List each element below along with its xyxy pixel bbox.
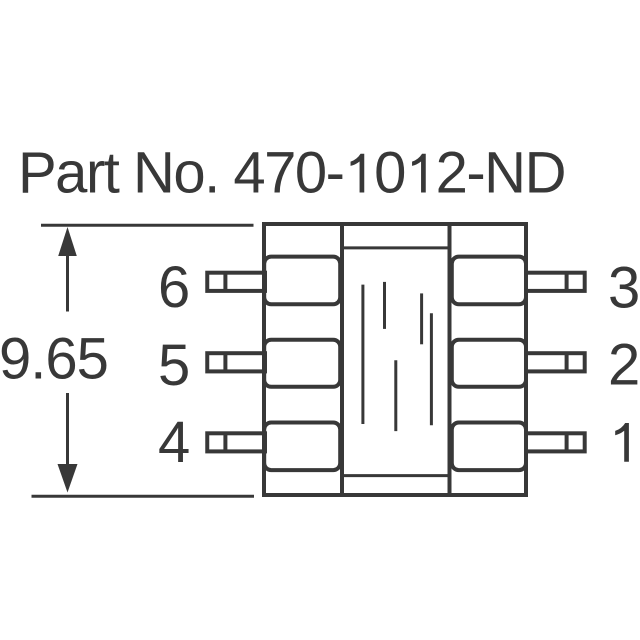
svg-text:Part No. 470-: Part No. 470- <box>18 141 343 206</box>
svg-text:6: 6 <box>158 255 190 320</box>
svg-text:3: 3 <box>608 256 640 321</box>
svg-text:5: 5 <box>158 333 190 398</box>
svg-text:4: 4 <box>158 410 190 475</box>
svg-text:2-ND: 2-ND <box>436 141 565 206</box>
svg-text:2: 2 <box>608 333 640 398</box>
svg-text:0: 0 <box>374 141 405 206</box>
svg-text:9.65: 9.65 <box>0 327 108 392</box>
